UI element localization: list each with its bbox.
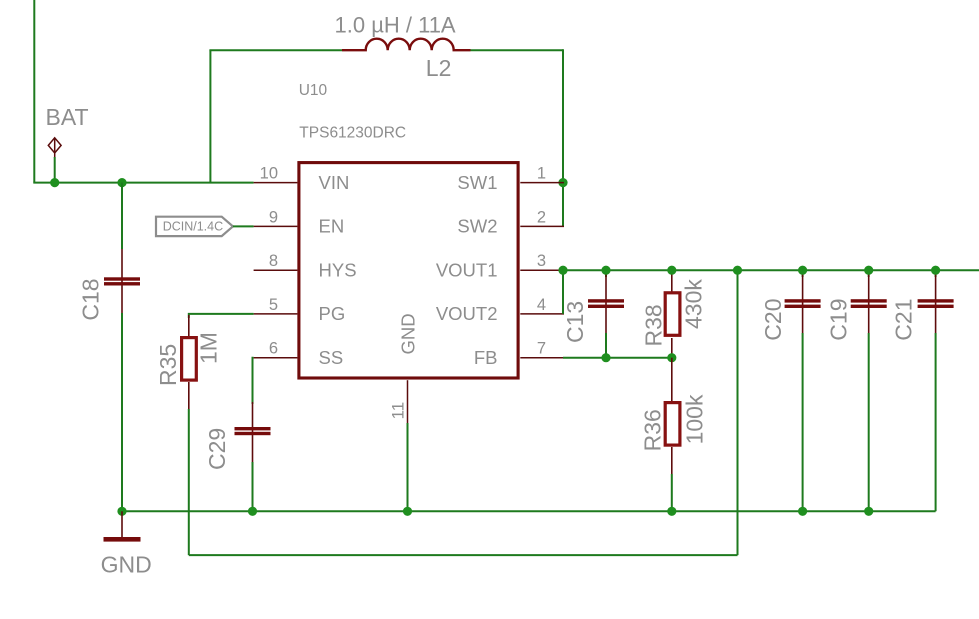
svg-text:4: 4 <box>537 296 546 314</box>
capacitor C13 <box>588 274 624 333</box>
svg-text:6: 6 <box>269 340 278 358</box>
svg-text:2: 2 <box>537 208 546 226</box>
svg-text:EN: EN <box>319 216 345 237</box>
wire BAT net horizontal to pin 10 <box>33 182 253 184</box>
svg-text:1M: 1M <box>196 332 222 364</box>
svg-text:5: 5 <box>269 296 278 314</box>
IC U10 box <box>299 163 518 378</box>
pin 9 EN stub <box>254 225 298 227</box>
pin 2 SW2 stub <box>520 225 564 227</box>
node C21 top junction <box>931 266 940 275</box>
resistor R36 <box>665 358 680 474</box>
pin 11 GND stub <box>407 380 409 423</box>
node pullup VOUT junction <box>733 266 742 275</box>
svg-text:8: 8 <box>269 252 278 270</box>
pin 8 HYS stub <box>254 269 298 271</box>
node FB junction <box>667 353 676 362</box>
wire R35 bottom lead <box>188 409 190 555</box>
wire VOUT1 net <box>563 269 979 271</box>
svg-text:R36: R36 <box>639 409 665 451</box>
pin 6 SS stub <box>254 357 298 359</box>
inductor L2 <box>342 39 471 50</box>
svg-text:SS: SS <box>319 347 344 368</box>
node BAT junction <box>50 178 59 187</box>
wire SS net <box>253 358 254 404</box>
svg-text:100k: 100k <box>682 394 708 444</box>
wire L2 top right segment <box>471 49 564 51</box>
svg-text:PG: PG <box>319 303 346 324</box>
svg-text:C18: C18 <box>78 278 104 320</box>
wire PG pullup horizontal <box>189 554 738 556</box>
capacitor C29 <box>235 402 271 462</box>
pin 4 VOUT2 stub <box>520 313 564 315</box>
supply symbol BAT <box>48 138 61 158</box>
pin 7 FB stub <box>520 357 564 359</box>
pin 10 VIN stub <box>254 182 298 184</box>
svg-text:GND: GND <box>101 552 152 578</box>
wire L2 top left segment <box>209 49 342 51</box>
capacitor C21 <box>918 274 954 333</box>
pin 5 PG stub <box>254 313 298 315</box>
node C13 bottom junction <box>601 353 610 362</box>
wire C18 top lead <box>121 183 123 249</box>
node R38 top junction <box>667 266 676 275</box>
resistor R35 <box>182 315 197 409</box>
svg-text:9: 9 <box>269 208 278 226</box>
wire C19 bottom lead <box>868 333 870 511</box>
svg-text:U10: U10 <box>299 82 328 99</box>
svg-text:SW1: SW1 <box>457 172 497 193</box>
wire C13 top lead <box>605 270 607 277</box>
svg-text:C13: C13 <box>562 301 588 343</box>
node C13 top junction <box>601 266 610 275</box>
wire C20 bottom lead <box>802 333 804 511</box>
svg-text:1: 1 <box>537 165 546 183</box>
pin 3 VOUT1 stub <box>520 269 564 271</box>
svg-text:1.0 µH / 11A: 1.0 µH / 11A <box>335 13 456 38</box>
svg-text:C21: C21 <box>891 298 917 340</box>
node ground rail R36 junction <box>667 507 676 516</box>
pin 1 SW1 stub <box>520 182 564 184</box>
wire C18 bottom lead <box>121 313 123 511</box>
node C18 junction <box>117 178 126 187</box>
svg-text:C20: C20 <box>760 298 786 340</box>
node ground rail C19 junction <box>864 507 873 516</box>
svg-text:DCIN/1.4C: DCIN/1.4C <box>163 220 223 234</box>
svg-text:VIN: VIN <box>319 172 350 193</box>
svg-text:BAT: BAT <box>46 104 89 130</box>
wire PG pullup riser <box>737 270 739 555</box>
svg-text:430k: 430k <box>681 279 707 329</box>
svg-text:VOUT1: VOUT1 <box>436 259 498 280</box>
svg-text:VOUT2: VOUT2 <box>436 303 498 324</box>
wire BAT symbol lead <box>54 157 56 183</box>
svg-text:TPS61230DRC: TPS61230DRC <box>299 125 406 142</box>
svg-text:GND: GND <box>398 313 419 354</box>
wire FB net <box>563 357 672 359</box>
svg-text:C19: C19 <box>826 298 852 340</box>
svg-text:10: 10 <box>260 165 278 183</box>
wire C21 top lead <box>935 270 937 277</box>
node C19 top junction <box>864 266 873 275</box>
node C20 top junction <box>798 266 807 275</box>
wire SW riser <box>562 49 564 226</box>
node ground rail C29 junction <box>248 507 257 516</box>
wire EN net <box>233 225 254 227</box>
wire C19 top lead <box>868 270 870 277</box>
svg-text:FB: FB <box>474 347 498 368</box>
node ground rail C18 junction <box>117 507 126 516</box>
svg-text:R35: R35 <box>155 344 181 386</box>
svg-text:3: 3 <box>537 252 546 270</box>
svg-text:7: 7 <box>537 340 546 358</box>
svg-text:C29: C29 <box>204 428 230 470</box>
wire pin 11 to ground rail <box>407 423 409 511</box>
svg-text:11: 11 <box>389 402 408 420</box>
wire C20 top lead <box>802 270 804 277</box>
wire VOUT2 riser <box>562 270 564 314</box>
node ground rail pin11 junction <box>403 507 412 516</box>
wire C29 bottom lead <box>252 462 254 511</box>
svg-text:SW2: SW2 <box>457 216 497 237</box>
wire BAT net vertical from top edge <box>33 0 35 183</box>
wire ground rail <box>122 510 936 512</box>
wire L2 left riser <box>209 50 211 182</box>
resistor R38 <box>665 270 680 358</box>
wire R36 bottom lead <box>671 474 673 511</box>
wire PG net <box>189 314 254 318</box>
capacitor C18 <box>104 249 140 313</box>
wire C13 bottom lead <box>605 333 607 358</box>
capacitor C20 <box>785 274 821 333</box>
node VOUT junction <box>558 266 567 275</box>
svg-text:L2: L2 <box>426 55 452 81</box>
node SW1 junction <box>558 178 567 187</box>
ground symbol <box>104 511 141 541</box>
wire C21 bottom lead <box>935 333 937 511</box>
node ground rail C20 junction <box>798 507 807 516</box>
svg-text:R38: R38 <box>641 304 667 346</box>
net flag DCIN/1.4C <box>156 217 233 236</box>
svg-text:HYS: HYS <box>319 259 357 280</box>
capacitor C19 <box>851 274 887 333</box>
